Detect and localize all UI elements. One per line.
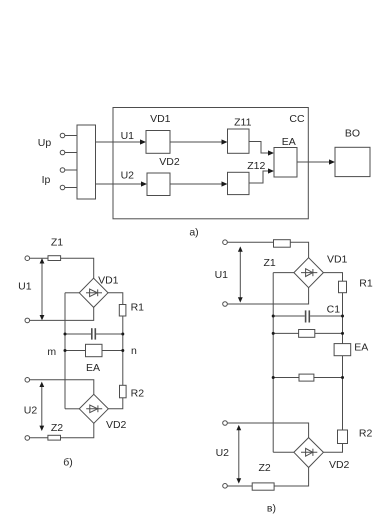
- svg-text:Z2: Z2: [51, 422, 63, 434]
- right rail mid: [342, 356, 344, 430]
- bridge rectifier VD1: [79, 278, 108, 307]
- junction dot cap left: [64, 333, 67, 336]
- terminal U1 top: [25, 256, 30, 261]
- block Z12: [228, 172, 250, 194]
- terminal U1 top: [223, 240, 228, 245]
- svg-text:m: m: [47, 346, 56, 358]
- wire bottom to bridge VD1: [30, 307, 94, 320]
- svg-text:EA: EA: [282, 136, 296, 148]
- terminal U2 top: [223, 421, 228, 426]
- wire VD2 right vertex: [108, 398, 123, 409]
- block Z11: [228, 129, 250, 153]
- resistor row 1 wire: [273, 332, 342, 334]
- resistor Z2: [252, 483, 274, 490]
- input block: [77, 125, 96, 199]
- resistor R1: [119, 305, 126, 317]
- junction dot n: [121, 349, 124, 352]
- measure arrow U1: [238, 246, 243, 302]
- svg-text:R2: R2: [359, 428, 373, 440]
- resistor R1: [339, 281, 347, 293]
- svg-text:VD1: VD1: [150, 113, 171, 125]
- amplifier EA: [274, 148, 297, 178]
- diode of VD1: [301, 269, 317, 277]
- svg-text:U1: U1: [18, 280, 32, 292]
- junction dot row1 left: [272, 332, 275, 335]
- svg-text:U1: U1: [121, 130, 135, 142]
- measure arrow U2: [39, 382, 44, 431]
- wire left rail to VD2 left vertex: [273, 451, 294, 453]
- svg-text:U2: U2: [216, 447, 230, 459]
- wire U2: [96, 181, 148, 186]
- wire VD1 to Z11: [170, 139, 228, 144]
- input terminal 4: [60, 185, 77, 190]
- wire VD2 bottom vertex: [30, 423, 94, 437]
- bridge rectifier VD2: [79, 394, 108, 423]
- input terminal 2: [60, 150, 77, 155]
- wire R2 to VD2 right vertex: [323, 444, 342, 453]
- svg-text:Z12: Z12: [247, 160, 265, 172]
- wire VD1 right vertex: [323, 273, 342, 282]
- diode of VD1: [86, 289, 102, 297]
- wire U1: [96, 139, 147, 144]
- output block BO: [335, 147, 370, 176]
- resistor R2: [338, 430, 348, 444]
- junction dot row2 left: [272, 376, 275, 379]
- input terminal 3: [60, 168, 77, 173]
- junction dot cap right: [121, 333, 124, 336]
- wire VD2 bottom vertex: [227, 468, 308, 487]
- svg-text:U2: U2: [24, 404, 38, 416]
- capacitor row: [65, 328, 123, 339]
- wire top to bridge VD1: [227, 242, 308, 258]
- svg-text:VD2: VD2: [329, 459, 350, 471]
- resistor row 2 wire: [273, 377, 342, 379]
- terminal U2 bottom: [223, 484, 228, 489]
- right rail upper: [342, 293, 344, 344]
- svg-text:EA: EA: [354, 341, 368, 353]
- svg-text:BO: BO: [345, 127, 360, 139]
- svg-text:а): а): [189, 227, 198, 239]
- svg-text:Up: Up: [38, 137, 52, 149]
- comparison circuit box CC: [113, 108, 308, 219]
- wire VD1 left vertex to left rail: [273, 272, 294, 274]
- left rail: [272, 273, 274, 453]
- input terminal 1: [60, 133, 77, 138]
- wire VD1 right vertex: [108, 293, 123, 305]
- wire Z11 to EA: [249, 142, 274, 156]
- wire bottom to bridge VD1: [227, 288, 308, 304]
- diode of VD2: [301, 448, 317, 456]
- resistor row 2: [299, 374, 314, 381]
- junction dot cap left: [272, 315, 275, 318]
- measure arrow U1: [40, 258, 45, 320]
- svg-text:R2: R2: [131, 387, 145, 399]
- right rail: [122, 316, 124, 385]
- svg-text:VD1: VD1: [98, 274, 119, 286]
- left rail: [64, 293, 66, 409]
- junction dot cap right: [341, 315, 344, 318]
- junction dot row1 right: [341, 332, 344, 335]
- resistor Z1: [48, 256, 61, 261]
- svg-text:Z11: Z11: [234, 117, 251, 129]
- svg-text:U2: U2: [121, 169, 135, 181]
- wire VD1 left vertex to left rail: [65, 292, 79, 294]
- svg-text:в): в): [267, 502, 276, 514]
- svg-text:R1: R1: [131, 302, 145, 314]
- svg-text:VD1: VD1: [327, 253, 348, 265]
- svg-text:CC: CC: [289, 113, 305, 125]
- wire top to bridge VD1: [30, 258, 94, 278]
- resistor Z1: [274, 240, 291, 248]
- measure arrow U2: [236, 425, 241, 484]
- bridge rectifier VD2: [294, 438, 324, 468]
- svg-text:Z2: Z2: [258, 462, 270, 474]
- wire m to n: [65, 350, 123, 352]
- svg-text:EA: EA: [86, 362, 100, 374]
- svg-text:б): б): [63, 457, 73, 469]
- resistor row 1: [299, 330, 315, 338]
- capacitor row C1: [273, 310, 342, 322]
- wire EA to BO: [297, 159, 335, 164]
- terminal U1 bottom: [25, 318, 30, 323]
- svg-text:R1: R1: [359, 277, 373, 289]
- resistor Z2: [48, 435, 61, 440]
- svg-text:VD2: VD2: [159, 156, 180, 168]
- terminal U1 bottom: [223, 302, 228, 307]
- wire VD2 to Z12: [170, 181, 228, 186]
- svg-text:Z1: Z1: [263, 257, 275, 269]
- junction dot m: [64, 349, 67, 352]
- converter VD1: [146, 131, 170, 154]
- converter VD2: [147, 173, 170, 196]
- wire top to bridge VD2: [30, 380, 94, 395]
- terminal U2 bottom: [25, 436, 30, 441]
- diode of VD2: [86, 405, 102, 413]
- resistor R2: [120, 385, 127, 398]
- wire Z12 to EA: [249, 168, 274, 183]
- bridge rectifier VD1: [294, 258, 324, 288]
- svg-text:Ip: Ip: [42, 174, 51, 186]
- svg-text:VD2: VD2: [106, 419, 127, 431]
- terminal U2 top: [25, 378, 30, 383]
- wire left rail to VD2 left vertex: [65, 408, 79, 410]
- svg-text:n: n: [131, 345, 137, 357]
- svg-text:U1: U1: [215, 269, 229, 281]
- amplifier EA: [86, 344, 103, 356]
- svg-text:Z1: Z1: [51, 237, 63, 249]
- junction dot row2 right: [341, 376, 344, 379]
- svg-text:C1: C1: [327, 304, 341, 316]
- amplifier EA: [334, 344, 351, 356]
- wire top to bridge VD2: [227, 423, 308, 438]
